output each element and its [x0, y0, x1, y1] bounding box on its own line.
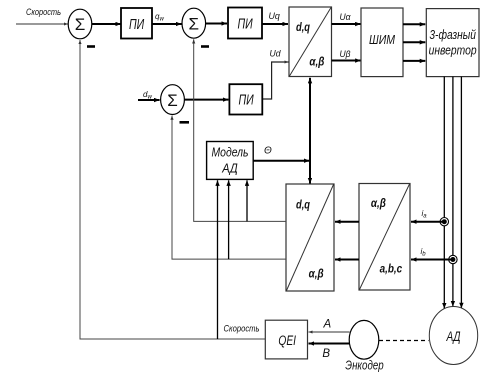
svg-text:ШИМ: ШИМ — [369, 32, 395, 47]
wire PWM to inverter 1 — [403, 23, 425, 25]
svg-text:Σ: Σ — [75, 15, 86, 34]
summing junction S2 — [182, 8, 206, 38]
wire phase C — [460, 77, 462, 309]
svg-text:ПИ: ПИ — [129, 16, 144, 33]
wire PI3 to dq1 — [262, 62, 288, 99]
wire iq to model — [246, 180, 248, 221]
wire encoder shaft dashed — [379, 340, 429, 342]
wire speed feedback to S1 — [80, 40, 265, 339]
svg-text:Uβ: Uβ — [340, 49, 351, 59]
svg-text:Модель: Модель — [212, 145, 249, 160]
svg-text:B: B — [322, 348, 330, 360]
wire speed input — [16, 23, 68, 25]
svg-text:3-фазный: 3-фазный — [429, 27, 476, 42]
wire encoder A — [309, 331, 350, 333]
wire U-beta — [332, 60, 361, 62]
svg-text:инвертор: инвертор — [429, 43, 477, 58]
block dq2 transform alpha-beta to dq — [286, 184, 334, 291]
wire PWM to inverter 2 — [403, 41, 425, 43]
wire theta — [253, 160, 309, 162]
svg-text:A: A — [323, 319, 332, 331]
current sensor B — [449, 255, 457, 263]
minus sign S3 — [180, 121, 190, 124]
wire S3 to PI3 — [184, 99, 228, 101]
svg-text:a,b,c: a,b,c — [380, 262, 403, 276]
block dq1 transform dq to alpha-beta — [289, 7, 332, 77]
svg-text:Скорость: Скорость — [26, 7, 61, 17]
block QEI — [265, 320, 307, 359]
summing junction S3 — [161, 85, 185, 115]
block motor model — [207, 142, 254, 180]
current sensor A — [440, 218, 448, 226]
svg-text:ПИ: ПИ — [239, 92, 254, 109]
svg-text:АД: АД — [446, 329, 461, 344]
wire speed to model — [217, 180, 219, 339]
wire id to model — [228, 180, 230, 259]
wire S1 to PI1 — [92, 23, 121, 25]
block PI1 speed controller — [121, 8, 152, 39]
block three-phase inverter — [426, 9, 479, 77]
wire current ia — [411, 221, 444, 223]
wire phase A — [443, 77, 445, 309]
wire PI1 to S2 — [153, 23, 182, 25]
svg-text:АД: АД — [221, 161, 237, 176]
wire abc to dq2 lower — [335, 259, 359, 261]
wire current ib — [411, 259, 453, 261]
block PI2 q-axis controller — [228, 8, 262, 39]
wire phase B — [452, 77, 454, 307]
block PI3 d-axis controller — [229, 84, 262, 114]
block abc transform — [359, 184, 410, 291]
wire theta to dq2 — [309, 161, 311, 184]
minus sign S1 — [87, 45, 95, 48]
encoder — [349, 320, 379, 359]
svg-text:Скорость: Скорость — [224, 324, 260, 334]
wire theta to dq1 — [309, 78, 311, 161]
wire U-alpha — [332, 23, 361, 25]
svg-text:Ud: Ud — [270, 49, 282, 59]
block PWM — [361, 8, 403, 77]
svg-text:α,β: α,β — [309, 267, 324, 281]
wire iq feedback to S2 — [194, 39, 286, 221]
svg-text:Энкодер: Энкодер — [345, 358, 383, 372]
svg-text:ПИ: ПИ — [238, 16, 253, 33]
minus sign S2 — [201, 45, 209, 48]
wire PI2 to dq1 — [263, 23, 289, 25]
svg-text:Θ: Θ — [264, 145, 272, 156]
svg-text:Σ: Σ — [189, 14, 200, 33]
svg-text:Uα: Uα — [340, 12, 352, 22]
svg-text:α,β: α,β — [371, 196, 386, 210]
wire abc to dq2 upper — [335, 221, 359, 223]
wire encoder B — [309, 343, 350, 345]
svg-text:Uq: Uq — [269, 11, 280, 21]
wire PWM to inverter 3 — [403, 60, 425, 62]
svg-text:Σ: Σ — [167, 91, 178, 110]
svg-text:d,q: d,q — [296, 198, 311, 212]
wire id feedback to S3 — [172, 116, 286, 260]
wire d reference input — [138, 99, 160, 101]
wire S2 to PI2 — [206, 23, 227, 25]
svg-text:d,q: d,q — [296, 20, 311, 34]
summing junction S1 — [68, 9, 92, 39]
svg-text:QEI: QEI — [278, 332, 296, 348]
svg-text:α,β: α,β — [309, 55, 324, 69]
motor AD — [429, 307, 477, 365]
